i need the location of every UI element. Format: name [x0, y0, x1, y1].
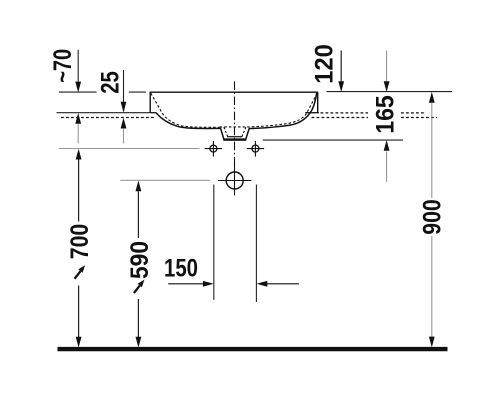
fixing hole right crosshair horizontal [247, 148, 264, 150]
extension line rim-top left segment a [59, 91, 97, 93]
dimension ~70 upper leg [77, 50, 79, 82]
dimension 900 upper arrowhead [429, 92, 435, 103]
dimension 590 oblique arrow [134, 280, 145, 294]
dimension 150 left-pointing arrowhead [257, 281, 268, 287]
dimension 700 lower shaft [78, 286, 80, 338]
dimension 150 right-pointing arrowhead [203, 281, 214, 287]
dimension 700 upper arrowhead [76, 149, 82, 160]
dotted counter line left [61, 117, 155, 119]
dotted line right upper segment b [401, 112, 424, 114]
extension line rim-top left segment b [129, 91, 146, 93]
dimension 120 arrowhead [338, 81, 344, 92]
dotted hidden edge right (diagonal + inner bowl) [249, 93, 317, 127]
dimension 165 upper leg (gray) [386, 50, 388, 82]
dimension 25 lower tail (gray) [123, 129, 125, 144]
dimension 700 upper shaft [78, 160, 80, 222]
dimension 900 upper shaft (gray) [431, 103, 433, 198]
dimension 25 upper arrowhead [121, 102, 127, 113]
svg-text:165: 165 [372, 95, 400, 134]
dotted line right upper segment a [321, 112, 369, 114]
floor line [58, 347, 448, 351]
basin bowl outer curve [156, 93, 317, 140]
dimension 165 lower arrowhead [384, 140, 390, 151]
svg-text:900: 900 [418, 199, 446, 235]
dimension 150 right extension line [255, 185, 257, 303]
extension line fixing-hole level (gray) [59, 148, 200, 150]
fixing hole left crosshair vertical [212, 141, 214, 157]
fixing hole left crosshair horizontal [205, 148, 222, 150]
fixing hole left circle [210, 145, 217, 152]
svg-text:25: 25 [97, 71, 125, 94]
dimension 150 left shaft [168, 283, 204, 285]
svg-text:150: 150 [164, 255, 198, 283]
drain outlet crosshair horizontal [218, 180, 251, 182]
svg-text:700: 700 [66, 224, 94, 260]
dimension 25 lower arrowhead [121, 118, 127, 129]
drain outlet crosshair vertical [234, 164, 236, 195]
dimension 900 lower shaft (gray) [431, 236, 433, 337]
fixing hole right crosshair vertical [254, 141, 256, 157]
basin right edge [317, 92, 319, 113]
dimension 700 oblique arrow [75, 265, 86, 279]
dimension ~70 lower tail (gray) [77, 124, 79, 143]
dotted line right lower segment a [312, 117, 369, 119]
extension line drain-bottom right (165 level) [263, 139, 403, 141]
dimension 150 left extension line [213, 185, 215, 300]
dimension 165 upper arrowhead [384, 81, 390, 92]
dimension 150 right shaft [266, 283, 299, 285]
drain inner right side (dashed) [242, 127, 246, 137]
drain outlet circle [226, 172, 243, 189]
dimension 700 lower arrowhead [76, 337, 82, 348]
dotted hidden edge left (diagonal + inner bowl) [151, 93, 220, 127]
dotted row across drain [220, 126, 250, 128]
dimension 590 lower shaft [137, 299, 139, 338]
dotted line right lower segment b [401, 117, 437, 119]
extension line rim-top right [327, 91, 453, 93]
extension line rim-bottom (y=112.6) [57, 112, 151, 114]
fixing hole right circle [252, 145, 259, 152]
drain inner bottom [227, 136, 242, 138]
drain inner left side (dashed) [224, 127, 228, 137]
dimension 590 upper arrowhead [136, 181, 142, 192]
dimension ~70 upper arrowhead [75, 82, 81, 93]
svg-text:590: 590 [126, 241, 154, 279]
basin rim bottom-right edge [305, 112, 319, 114]
svg-text:120: 120 [311, 44, 339, 84]
basin left edge [149, 92, 151, 113]
dimension 165 lower tail (gray) [386, 152, 388, 182]
dimension 590 lower arrowhead [136, 337, 142, 348]
centerline (dash-dot) [234, 81, 236, 166]
dimension 900 lower arrowhead [429, 337, 435, 348]
dimension 120 leg [340, 50, 342, 83]
svg-text:~70: ~70 [49, 49, 77, 83]
dimension ~70 lower arrowhead [75, 113, 81, 124]
dimension 25 upper leg [123, 70, 125, 102]
dimension 590 upper shaft [137, 191, 139, 238]
basin rim bottom-left edge [150, 112, 156, 114]
basin rim top [150, 91, 318, 93]
drain trapezoid bottom (thick) [223, 138, 246, 140]
extension line outlet level (gray) [120, 179, 210, 181]
